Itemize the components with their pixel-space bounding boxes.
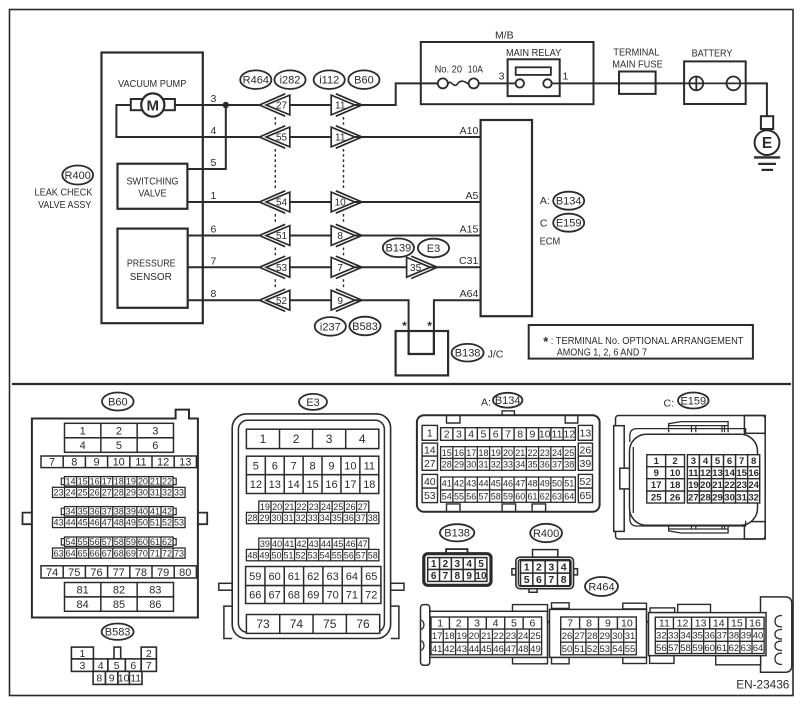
svg-text:9: 9	[93, 457, 99, 469]
svg-text:4: 4	[359, 432, 366, 446]
svg-text:45: 45	[491, 479, 501, 489]
svg-text:38: 38	[564, 460, 574, 470]
svg-text:57: 57	[102, 537, 112, 547]
B134 left pin column 1,14,27,40,53	[422, 425, 437, 502]
svg-text:8: 8	[71, 457, 77, 469]
svg-text:25: 25	[651, 492, 662, 503]
svg-text:*: *	[427, 319, 432, 333]
svg-text:8: 8	[310, 460, 316, 472]
dotted connector boundary (right column)	[343, 117, 345, 288]
connector symbol terminal 35 (right arrow)	[407, 256, 438, 278]
svg-text:18: 18	[670, 480, 681, 491]
svg-text:16: 16	[454, 448, 464, 458]
svg-text:6: 6	[431, 571, 437, 582]
B134 pins 2-12	[441, 428, 576, 441]
svg-text:4: 4	[561, 562, 567, 574]
B60 pins 7-13	[41, 456, 196, 469]
connector E3 left tab	[219, 583, 232, 590]
svg-text:5: 5	[715, 456, 721, 467]
svg-text:43: 43	[309, 539, 319, 549]
wire pin 7 to terminal 53	[188, 266, 260, 268]
svg-text:19: 19	[491, 448, 501, 458]
svg-text:25: 25	[530, 631, 541, 642]
svg-text:8: 8	[337, 231, 343, 242]
R400 pins 1-4	[521, 561, 570, 574]
svg-text:75: 75	[323, 617, 337, 631]
leak check valve assy outline box R400	[102, 53, 203, 324]
svg-text:24: 24	[66, 488, 76, 498]
svg-text:9: 9	[328, 460, 334, 472]
svg-text:7: 7	[49, 457, 55, 469]
svg-text:No. 20: No. 20	[435, 64, 463, 76]
svg-text:59: 59	[126, 537, 136, 547]
svg-text:69: 69	[126, 548, 136, 558]
svg-text:65: 65	[580, 490, 592, 502]
svg-text:48: 48	[527, 479, 537, 489]
svg-text:11: 11	[659, 618, 670, 630]
svg-text:43: 43	[456, 644, 467, 655]
battery	[684, 47, 746, 104]
svg-text:4: 4	[98, 660, 104, 672]
svg-text:28: 28	[247, 513, 257, 523]
svg-text:13: 13	[695, 618, 707, 630]
E159 pins 1,2 block	[647, 455, 685, 504]
svg-text:22: 22	[527, 448, 537, 458]
svg-text:42: 42	[297, 539, 307, 549]
connector E3 left wing	[224, 606, 232, 638]
svg-text:61: 61	[527, 491, 537, 501]
connector symbol terminal 8 (right arrow)	[331, 224, 362, 246]
E3 pins 5-11	[246, 456, 378, 475]
svg-text:52: 52	[296, 550, 306, 560]
svg-text:23: 23	[54, 488, 64, 498]
svg-text:71: 71	[346, 589, 358, 601]
svg-text:20: 20	[469, 631, 480, 642]
svg-text:11: 11	[335, 101, 346, 112]
svg-text:52: 52	[587, 644, 598, 655]
R464 pins 32-40	[655, 629, 764, 642]
svg-text:17: 17	[432, 631, 443, 642]
svg-text:14: 14	[424, 444, 436, 456]
svg-text:1: 1	[427, 428, 433, 440]
svg-text:13: 13	[580, 428, 592, 440]
svg-text:80: 80	[179, 567, 191, 579]
svg-text:45: 45	[78, 518, 88, 528]
svg-text:5: 5	[211, 157, 217, 169]
connector oval B138 (pinout)	[440, 524, 474, 541]
svg-text:29: 29	[712, 492, 723, 503]
svg-text:52: 52	[580, 476, 592, 488]
svg-text:49: 49	[540, 479, 550, 489]
E3 pins 66-72	[246, 586, 381, 604]
connector symbol terminal 53 (left arrow)	[259, 256, 289, 278]
ECM box	[481, 120, 532, 316]
svg-text:4: 4	[80, 440, 86, 452]
svg-text:65: 65	[78, 548, 88, 558]
svg-text:38: 38	[729, 630, 740, 641]
connector oval B134 (schematic)	[553, 192, 584, 210]
B60 pins 1-3	[65, 423, 174, 438]
wire motor to pin 3	[175, 104, 203, 106]
svg-text:58: 58	[368, 550, 378, 560]
svg-text:32: 32	[162, 488, 172, 498]
svg-text:40: 40	[138, 506, 148, 516]
motor M (vacuum pump)	[131, 93, 175, 116]
svg-text:36: 36	[540, 460, 550, 470]
B60 pins 63-73	[53, 548, 186, 558]
svg-text:44: 44	[469, 644, 480, 655]
svg-text:E159: E159	[680, 395, 706, 407]
svg-text:57: 57	[668, 643, 679, 654]
svg-text:B60: B60	[108, 396, 128, 408]
svg-text:15: 15	[306, 479, 318, 491]
connector oval R400	[62, 166, 93, 185]
svg-text:5: 5	[481, 429, 487, 441]
svg-text:40: 40	[272, 539, 282, 549]
svg-text:32: 32	[748, 492, 759, 503]
svg-text:34: 34	[680, 630, 691, 641]
svg-text:41: 41	[432, 644, 443, 655]
wire fuse to relay pin 3	[479, 82, 508, 84]
connector B134 shell	[417, 415, 600, 512]
B60 pins 43-53	[53, 517, 186, 527]
svg-text:8: 8	[586, 618, 592, 630]
svg-text:69: 69	[307, 589, 319, 601]
connector B583 pins 8-11	[93, 671, 142, 684]
dotted connector boundary (left column)	[274, 117, 276, 288]
svg-text:58: 58	[491, 491, 501, 501]
svg-text:6: 6	[211, 224, 217, 236]
svg-text:2: 2	[444, 429, 450, 441]
B134 pins 41-51	[441, 477, 576, 490]
svg-text:7: 7	[739, 456, 744, 467]
svg-text:51: 51	[284, 550, 294, 560]
svg-text:64: 64	[564, 491, 574, 501]
R464 pins 17-25	[431, 629, 542, 642]
connector symbol terminal 9 (right arrow)	[331, 289, 362, 311]
svg-text:27: 27	[358, 502, 368, 512]
svg-text:42: 42	[454, 479, 464, 489]
svg-text:46: 46	[345, 539, 355, 549]
svg-text:3: 3	[456, 429, 462, 441]
R464 pins 11-16	[655, 617, 764, 630]
svg-text:1: 1	[524, 562, 530, 574]
connector E159 inner body ridge	[632, 447, 634, 513]
svg-text:55: 55	[276, 133, 288, 144]
svg-text:20: 20	[138, 476, 148, 486]
svg-text:14: 14	[66, 476, 76, 486]
connector oval B138 (schematic)	[452, 344, 484, 362]
svg-text:83: 83	[149, 585, 161, 597]
svg-text:A5: A5	[465, 190, 478, 202]
svg-text:31: 31	[478, 460, 488, 470]
svg-text:8: 8	[96, 673, 102, 685]
svg-text:10: 10	[539, 429, 551, 441]
svg-text:28: 28	[700, 492, 711, 503]
B60 pins 4-6	[65, 438, 174, 453]
svg-text:33: 33	[503, 460, 513, 470]
wire terminal 10 to ECM A5	[355, 201, 481, 203]
svg-text:47: 47	[506, 644, 517, 655]
svg-text:52: 52	[162, 518, 172, 528]
connector E3 outer shell	[232, 414, 390, 639]
E159 pins 3-32 block	[687, 455, 759, 504]
svg-text:i282: i282	[280, 75, 301, 87]
svg-text:67: 67	[102, 548, 112, 558]
svg-text:24: 24	[518, 631, 529, 642]
connector B583 key tab	[114, 647, 121, 659]
svg-text:22: 22	[297, 502, 307, 512]
svg-text:55: 55	[625, 644, 636, 655]
wire pin 4 to terminal 55	[203, 136, 260, 138]
svg-text:50: 50	[138, 518, 148, 528]
svg-text:9: 9	[466, 571, 472, 582]
svg-text:C: C	[540, 218, 548, 230]
svg-text:26: 26	[670, 492, 681, 503]
svg-text:1: 1	[211, 190, 217, 202]
svg-text:56: 56	[90, 537, 100, 547]
svg-text:34: 34	[515, 460, 525, 470]
wire relay to terminal main fuse	[560, 82, 619, 84]
wire terminal 51 to terminal 8	[290, 235, 331, 237]
svg-text:51: 51	[276, 231, 288, 242]
svg-text:72: 72	[365, 589, 377, 601]
svg-text:29: 29	[454, 460, 464, 470]
E3 pins 19-27	[259, 501, 369, 512]
svg-text:15: 15	[442, 448, 452, 458]
R464 pins 41-49	[431, 642, 542, 655]
connector E159 outer shell	[616, 416, 766, 540]
svg-text:68: 68	[114, 548, 124, 558]
connector oval E3 (schematic)	[418, 239, 449, 258]
svg-text:7: 7	[211, 255, 217, 267]
svg-text:55: 55	[454, 491, 464, 501]
section divider line	[12, 383, 791, 385]
svg-text:44: 44	[321, 539, 331, 549]
B60 pins 84-86	[65, 597, 174, 611]
svg-text:5: 5	[524, 574, 530, 586]
svg-text:60: 60	[704, 643, 715, 654]
svg-text:61: 61	[150, 537, 160, 547]
wire pin 1 to terminal 54	[187, 201, 259, 203]
svg-text:20: 20	[700, 480, 711, 491]
svg-text:SWITCHING: SWITCHING	[127, 176, 179, 188]
svg-text:EN-23436: EN-23436	[736, 678, 790, 692]
svg-text:E3: E3	[427, 243, 440, 255]
svg-text:55: 55	[332, 550, 342, 560]
svg-text:47: 47	[358, 539, 368, 549]
svg-text:29: 29	[600, 631, 611, 642]
svg-text:6: 6	[272, 460, 278, 472]
svg-text:47: 47	[102, 518, 112, 528]
svg-text:46: 46	[503, 479, 513, 489]
svg-text:50: 50	[271, 550, 281, 560]
svg-text:34: 34	[320, 513, 330, 523]
svg-text:: TERMINAL No. OPTIONAL ARRANG: : TERMINAL No. OPTIONAL ARRANGEMENT	[551, 335, 744, 347]
svg-text:12: 12	[700, 468, 711, 479]
wire terminal 35 to ECM C31	[430, 266, 480, 268]
svg-text:49: 49	[530, 644, 541, 655]
svg-text:62: 62	[162, 537, 172, 547]
connector symbol terminal 52 (left arrow)	[259, 289, 289, 311]
svg-text:E3: E3	[306, 397, 319, 409]
svg-text:3: 3	[548, 562, 554, 574]
svg-text:35: 35	[410, 263, 422, 274]
svg-text:63: 63	[552, 491, 562, 501]
svg-text:21: 21	[515, 448, 525, 458]
E3 pins 59-65	[246, 567, 381, 586]
svg-text:18: 18	[114, 476, 124, 486]
svg-text:4: 4	[493, 618, 499, 630]
connector R400 top tab	[533, 550, 558, 558]
svg-text:9: 9	[605, 618, 611, 630]
wire terminal 55 to terminal 11 row B	[290, 136, 331, 138]
R464 pins 1-6	[431, 617, 542, 630]
wire terminal 11 to ECM A10	[355, 136, 481, 138]
connector R400 outer shell	[516, 557, 574, 589]
svg-text:75: 75	[68, 567, 80, 579]
svg-text:25: 25	[78, 488, 88, 498]
svg-text:77: 77	[113, 567, 125, 579]
svg-text:43: 43	[466, 479, 476, 489]
connector symbol terminal 27 (left arrow)	[259, 94, 289, 116]
svg-text:59: 59	[503, 491, 513, 501]
svg-text:2: 2	[536, 562, 542, 574]
svg-text:82: 82	[113, 585, 125, 597]
svg-text:62: 62	[729, 643, 740, 654]
svg-text:12: 12	[250, 479, 262, 491]
svg-text:38: 38	[114, 506, 124, 516]
joint connector inner U	[409, 331, 434, 354]
connector B138 top tab	[446, 549, 467, 554]
svg-text:30: 30	[724, 492, 735, 503]
svg-text:31: 31	[625, 631, 636, 642]
svg-text:6: 6	[130, 660, 136, 672]
svg-text:MAIN FUSE: MAIN FUSE	[612, 59, 663, 71]
svg-text:40: 40	[424, 476, 436, 488]
svg-text:26: 26	[562, 631, 573, 642]
svg-text:54: 54	[276, 198, 288, 209]
svg-text:AMONG 1, 2, 6 AND 7: AMONG 1, 2, 6 AND 7	[557, 347, 647, 359]
svg-text:46: 46	[493, 644, 504, 655]
svg-text:R464: R464	[243, 75, 269, 87]
B134 right pin column 13,26,39,52,65	[578, 425, 592, 502]
B60 pins 23-33	[53, 487, 186, 497]
svg-text:C:: C:	[664, 397, 675, 409]
svg-text:20: 20	[272, 502, 282, 512]
svg-text:A64: A64	[460, 288, 479, 300]
svg-text:6: 6	[727, 456, 732, 467]
svg-text:22: 22	[493, 631, 504, 642]
R464 pins 7-10	[561, 617, 637, 630]
svg-text:2: 2	[456, 618, 462, 630]
connector symbol terminal 11 (right arrow)	[331, 94, 362, 116]
svg-text:3: 3	[455, 559, 461, 570]
svg-text:1: 1	[260, 432, 267, 446]
svg-text:53: 53	[276, 263, 288, 274]
svg-text:17: 17	[344, 479, 356, 491]
connector R464 body section 2	[550, 603, 647, 664]
svg-text:41: 41	[284, 539, 294, 549]
svg-text:11: 11	[135, 457, 146, 469]
svg-text:43: 43	[54, 518, 64, 528]
svg-text:2: 2	[116, 425, 122, 437]
connector R464 left cap	[421, 605, 430, 666]
svg-text:31: 31	[736, 492, 747, 503]
svg-text:58: 58	[114, 537, 124, 547]
svg-text:36: 36	[344, 513, 354, 523]
wire terminal 53 to terminal 7	[290, 266, 331, 268]
svg-text:27: 27	[424, 458, 436, 470]
B60 pins 54-62	[65, 537, 174, 547]
svg-text:1: 1	[654, 456, 660, 467]
svg-text:57: 57	[478, 491, 488, 501]
svg-text:16: 16	[749, 618, 761, 630]
svg-text:51: 51	[564, 479, 574, 489]
svg-text:42: 42	[162, 506, 172, 516]
svg-text:39: 39	[580, 458, 592, 470]
svg-text:23: 23	[309, 502, 319, 512]
connector R464 body joint 1	[548, 613, 558, 623]
joint connector B138 box	[396, 331, 449, 375]
svg-text:4: 4	[466, 559, 472, 570]
note box: terminal optional arrangement	[529, 325, 753, 359]
svg-text:66: 66	[90, 548, 100, 558]
svg-text:11: 11	[335, 133, 346, 144]
svg-text:B139: B139	[386, 243, 412, 255]
svg-text:A:: A:	[540, 195, 550, 207]
svg-text:6: 6	[493, 429, 499, 441]
svg-text:76: 76	[356, 617, 370, 631]
svg-text:58: 58	[680, 643, 691, 654]
B134 pins 15-25	[441, 447, 576, 459]
svg-text:72: 72	[162, 548, 172, 558]
E3 pins 12-18	[246, 475, 378, 494]
svg-text:26: 26	[580, 444, 592, 456]
svg-text:12: 12	[563, 429, 575, 441]
svg-text:16: 16	[325, 479, 337, 491]
svg-text:39: 39	[260, 539, 270, 549]
svg-text:3: 3	[79, 660, 85, 672]
E3 pins 28-38	[246, 512, 378, 523]
svg-text:20: 20	[503, 448, 513, 458]
svg-text:48: 48	[247, 550, 257, 560]
svg-text:65: 65	[365, 571, 377, 583]
svg-text:63: 63	[741, 643, 752, 654]
svg-text:41: 41	[442, 479, 452, 489]
svg-text:4: 4	[468, 429, 474, 441]
wire motor to pin 4 loop	[116, 105, 202, 137]
svg-text:26: 26	[90, 488, 100, 498]
svg-text:5: 5	[114, 660, 120, 672]
svg-text:16: 16	[90, 476, 100, 486]
connector R400 inner shell	[518, 560, 571, 587]
connector oval E159 (schematic)	[553, 214, 584, 232]
svg-text:16: 16	[748, 468, 759, 479]
main fuse box M/B	[421, 42, 594, 104]
svg-text:60: 60	[138, 537, 148, 547]
B60 small index tabs	[61, 478, 176, 545]
svg-text:2: 2	[293, 432, 300, 446]
wire pin 3 to terminal 27	[203, 104, 260, 106]
svg-text:54: 54	[320, 550, 330, 560]
svg-text:10: 10	[335, 198, 347, 209]
svg-text:62: 62	[540, 491, 550, 501]
svg-text:32: 32	[296, 513, 306, 523]
svg-text:21: 21	[712, 480, 723, 491]
svg-text:32: 32	[656, 630, 667, 641]
connector oval E159 (pinout)	[678, 393, 709, 409]
